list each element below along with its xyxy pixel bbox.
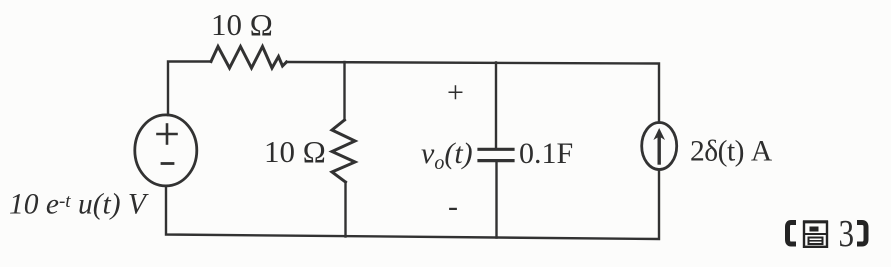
current source arrowhead xyxy=(653,128,665,140)
current source I1 circle xyxy=(642,123,677,170)
svg-text:10 e-t u(t) V: 10 e-t u(t) V xyxy=(9,189,149,221)
svg-text:2δ(t) A: 2δ(t) A xyxy=(690,136,773,168)
figure caption character tu (drawing) xyxy=(803,222,828,247)
wire top-left segment xyxy=(168,62,211,116)
figure caption right bracket xyxy=(857,223,866,245)
resistor R-top 10 ohm zigzag xyxy=(211,47,287,69)
wire top-right segment xyxy=(287,62,660,123)
svg-text:3: 3 xyxy=(839,212,855,255)
wire capacitor branch bottom xyxy=(495,162,497,238)
capacitor C1 plates xyxy=(479,148,513,151)
svg-text:vo(t): vo(t) xyxy=(421,137,473,174)
resistor R-mid 10 ohm zigzag xyxy=(332,120,355,182)
voltage source V1 circle xyxy=(135,115,197,186)
svg-text:0.1F: 0.1F xyxy=(519,137,573,170)
voltage source minus sign xyxy=(162,162,173,165)
current source arrow xyxy=(658,134,661,163)
wire middle branch bottom xyxy=(344,182,346,237)
figure caption left bracket xyxy=(788,223,797,245)
svg-text:-: - xyxy=(448,190,458,223)
svg-text:+: + xyxy=(447,76,464,109)
svg-text:10 Ω: 10 Ω xyxy=(211,7,273,42)
wire capacitor branch top xyxy=(495,63,497,148)
wire middle branch top xyxy=(343,62,345,120)
wire left stem below source xyxy=(166,170,659,240)
voltage source plus sign xyxy=(158,133,177,136)
svg-text:10 Ω: 10 Ω xyxy=(264,134,326,169)
